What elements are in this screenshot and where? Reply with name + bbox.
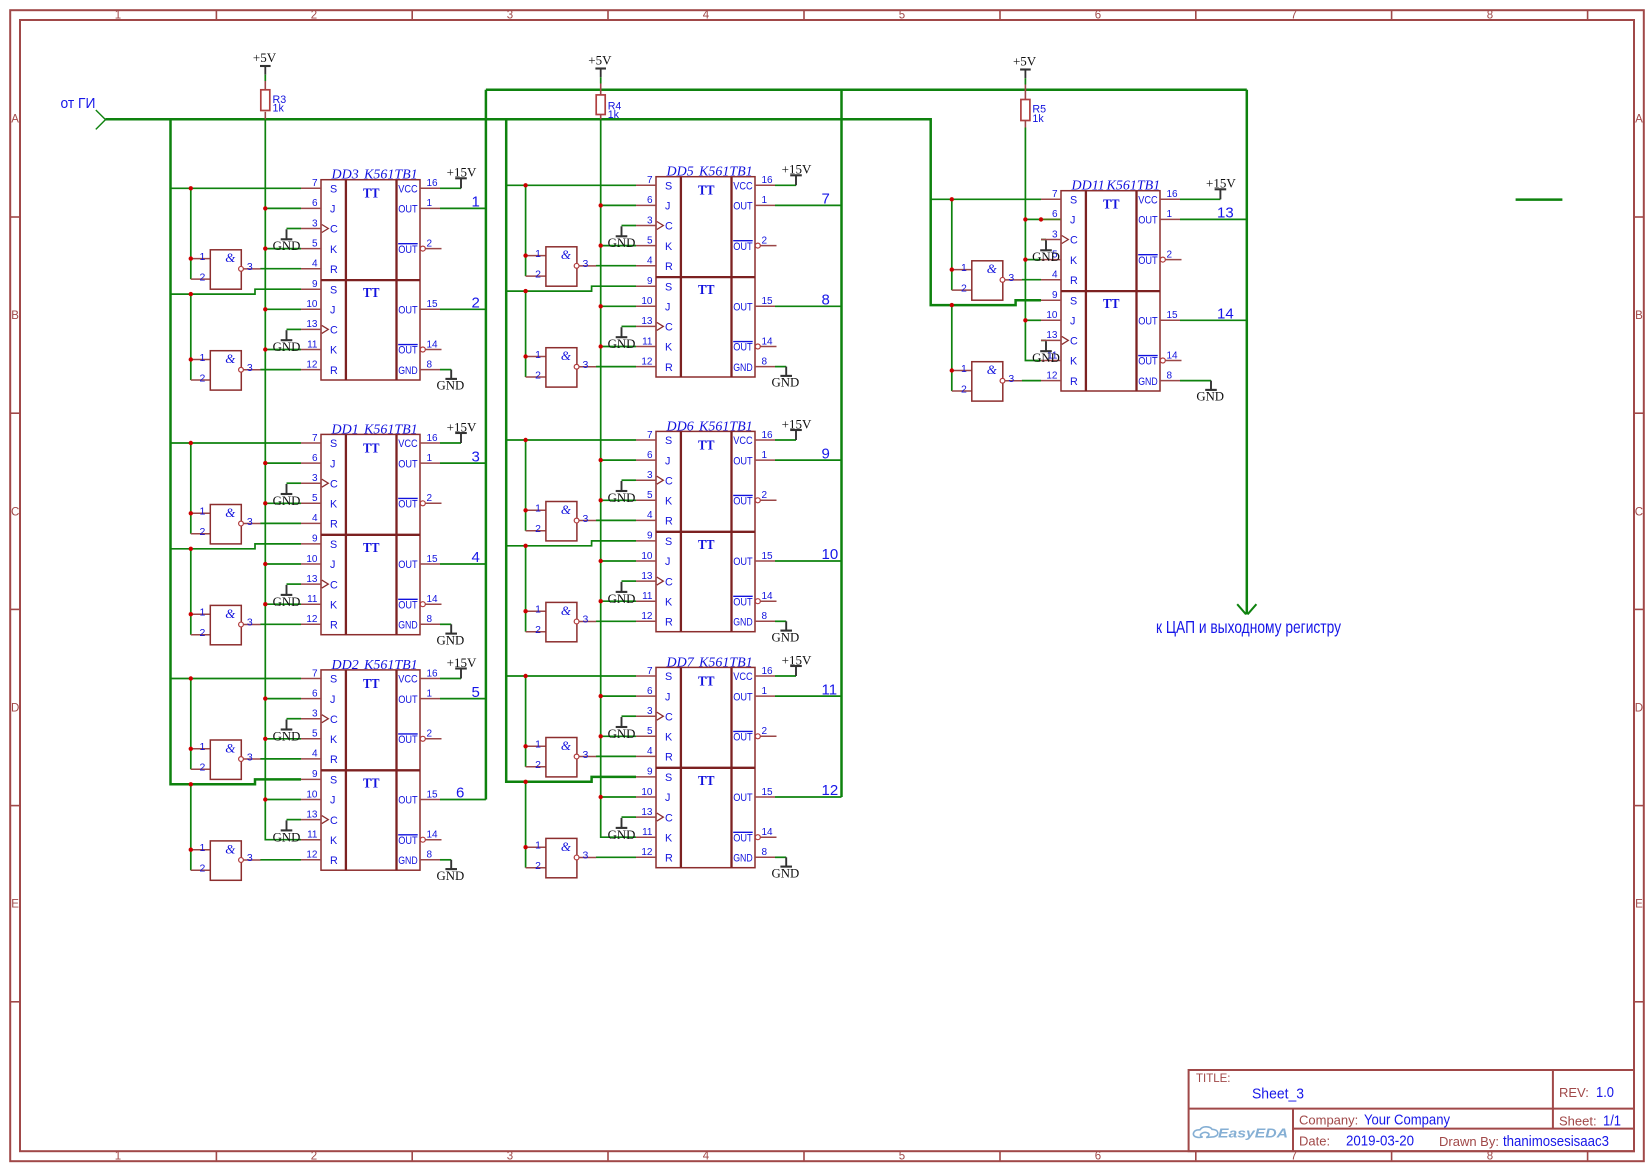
svg-text:14: 14 <box>427 594 439 605</box>
svg-text:15: 15 <box>762 551 774 562</box>
ground lead at pin8 of DD3 <box>450 370 452 379</box>
junction gate2-in1 DD5 <box>523 354 527 358</box>
wire gate2 output to R pin12 DD11 <box>1022 380 1041 382</box>
title block REV <box>1559 1084 1614 1101</box>
wire OUT pin15 net 4 DD1 <box>440 563 486 565</box>
svg-text:&: & <box>225 250 236 265</box>
svg-text:E: E <box>11 899 19 911</box>
svg-text:S: S <box>665 281 672 293</box>
svg-text:&: & <box>561 603 572 618</box>
svg-text:2019-03-20: 2019-03-20 <box>1346 1133 1414 1150</box>
svg-text:TT: TT <box>1103 197 1120 212</box>
svg-text:S: S <box>330 775 337 787</box>
junction K1 clock DD5 <box>599 243 603 247</box>
svg-text:Sheet_3: Sheet_3 <box>1252 1086 1304 1103</box>
svg-text:TT: TT <box>363 186 380 201</box>
svg-text:10: 10 <box>641 296 653 307</box>
svg-text:J: J <box>330 559 335 571</box>
svg-text:8: 8 <box>427 850 433 861</box>
wire C pin13 to ground DD6 <box>622 580 637 582</box>
wire gate-input vertical upper DD2 <box>190 679 192 770</box>
svg-text:OUT: OUT <box>398 734 418 746</box>
svg-text:S: S <box>665 671 672 683</box>
svg-text:14: 14 <box>1217 306 1234 323</box>
svg-text:GND: GND <box>273 729 301 743</box>
svg-text:1: 1 <box>762 195 768 206</box>
svg-text:9: 9 <box>312 279 318 290</box>
wire J pin6 DD3 <box>265 207 301 209</box>
junction J1 clock DD3 <box>263 206 267 210</box>
svg-text:8: 8 <box>1487 1151 1493 1163</box>
svg-text:7: 7 <box>647 430 653 441</box>
wire VCC pin16 DD7 <box>775 675 796 677</box>
svg-text:5: 5 <box>312 729 318 740</box>
ground lead at pin8 of DD6 <box>785 621 787 630</box>
svg-text:C: C <box>1070 336 1078 348</box>
svg-text:Sheet:: Sheet: <box>1559 1114 1597 1129</box>
ground at pin13 of DD6 <box>608 582 636 606</box>
svg-text:C: C <box>665 812 673 824</box>
svg-text:13: 13 <box>306 319 318 330</box>
resistor R4 1k <box>596 84 621 121</box>
svg-text:OUT: OUT <box>398 204 418 216</box>
junction K2 clock DD6 <box>599 599 603 603</box>
svg-text:R: R <box>665 752 673 764</box>
svg-text:8: 8 <box>427 359 433 370</box>
NAND gate upper of DD11 <box>952 261 1022 300</box>
svg-text:3: 3 <box>507 10 513 22</box>
svg-text:C: C <box>665 475 673 487</box>
junction K1 clock DD1 <box>263 501 267 505</box>
svg-text:4: 4 <box>647 746 653 757</box>
svg-text:J: J <box>665 302 670 314</box>
power +5V above R3 <box>253 50 277 75</box>
junction K1 clock DD2 <box>263 737 267 741</box>
svg-text:2: 2 <box>762 726 768 737</box>
svg-text:10: 10 <box>306 789 318 800</box>
wire gate-input vertical upper DD6 <box>525 440 527 531</box>
svg-text:9: 9 <box>312 769 318 780</box>
svg-text:5: 5 <box>647 490 653 501</box>
wire K pin5 DD1 <box>265 502 301 504</box>
wire gate2 output to R pin12 DD7 <box>596 856 636 858</box>
ground lead at pin8 of DD1 <box>450 624 452 633</box>
svg-text:&: & <box>225 606 236 621</box>
wire C pin3 to ground DD11 <box>1041 239 1046 241</box>
svg-text:&: & <box>561 839 572 854</box>
svg-text:J: J <box>330 204 335 216</box>
junction J2 clock DD7 <box>599 795 603 799</box>
svg-text:C: C <box>665 711 673 723</box>
svg-text:VCC: VCC <box>733 181 753 193</box>
svg-text:1: 1 <box>472 194 480 211</box>
svg-text:1: 1 <box>762 450 768 461</box>
wire K pin5 DD7 <box>601 735 636 737</box>
svg-text:R: R <box>330 620 338 632</box>
junction gate2-in1 DD1 <box>189 612 193 616</box>
svg-text:16: 16 <box>762 666 774 677</box>
svg-text:OUT: OUT <box>398 835 418 847</box>
wire OUT pin1 net 7 DD5 <box>775 204 842 206</box>
svg-text:9: 9 <box>647 767 653 778</box>
svg-text:B: B <box>1635 310 1643 322</box>
svg-text:3: 3 <box>1008 272 1014 284</box>
svg-text:R: R <box>1070 376 1078 388</box>
svg-text:EasyEDA: EasyEDA <box>1218 1126 1288 1141</box>
wire OUT pin15 net 2 DD3 <box>440 308 486 310</box>
svg-text:A: A <box>1635 114 1643 126</box>
svg-text:3: 3 <box>507 1151 513 1163</box>
svg-text:Drawn By:: Drawn By: <box>1439 1134 1499 1149</box>
junction gate1-in1 DD1 <box>189 511 193 515</box>
wire K pin11 DD5 <box>601 346 636 348</box>
svg-text:OUT: OUT <box>733 691 753 703</box>
svg-text:GND: GND <box>273 239 301 253</box>
wire gate-input vertical upper DD1 <box>190 443 192 534</box>
junction J1 clock DD5 <box>599 203 603 207</box>
svg-text:4: 4 <box>1052 270 1058 281</box>
svg-text:2: 2 <box>762 235 768 246</box>
svg-text:C: C <box>330 714 338 726</box>
junction J2 clock DD3 <box>263 307 267 311</box>
svg-text:GND: GND <box>608 491 636 505</box>
NAND gate upper of DD5 <box>526 247 597 286</box>
ground at pin13 of DD3 <box>273 330 301 354</box>
wire J pin10 DD5 <box>601 305 636 307</box>
svg-text:GND: GND <box>1138 376 1158 388</box>
svg-text:A: A <box>11 114 19 126</box>
svg-text:Date:: Date: <box>1299 1134 1330 1149</box>
wire VCC pin16 DD2 <box>440 678 461 680</box>
junction S1/DD3 <box>189 186 193 190</box>
svg-text:8: 8 <box>822 292 830 309</box>
svg-text:9: 9 <box>647 531 653 542</box>
wire S pin9 branch DD3 <box>171 289 302 294</box>
frame column numbers bottom <box>115 1151 1493 1163</box>
svg-text:14: 14 <box>762 827 774 838</box>
wire gate2 output to R pin12 DD2 <box>260 859 301 861</box>
svg-text:K: K <box>330 499 338 511</box>
svg-text:7: 7 <box>1291 1151 1297 1163</box>
svg-text:1: 1 <box>961 262 967 274</box>
svg-text:GND: GND <box>437 633 465 647</box>
svg-text:1: 1 <box>200 741 206 753</box>
wire VCC pin16 DD11 <box>1180 198 1220 200</box>
svg-text:GND: GND <box>608 727 636 741</box>
wire J pin10 DD2 <box>265 799 301 801</box>
svg-text:2: 2 <box>200 863 206 875</box>
svg-text:4: 4 <box>703 1151 710 1163</box>
svg-text:3: 3 <box>247 617 253 629</box>
svg-text:VCC: VCC <box>398 674 418 686</box>
svg-text:15: 15 <box>427 789 439 800</box>
svg-text:K: K <box>330 835 338 847</box>
svg-text:K: K <box>330 244 338 256</box>
svg-text:6: 6 <box>312 198 318 209</box>
NAND gate lower of DD5 <box>526 348 597 387</box>
svg-text:K: K <box>665 596 673 608</box>
wire gate-input vertical upper DD3 <box>190 188 192 279</box>
lead R4 to bus <box>600 115 602 120</box>
wire K pin5 DD3 <box>265 248 301 250</box>
wire S pin7 DD11 <box>931 198 1041 200</box>
svg-text:10: 10 <box>1046 310 1058 321</box>
svg-text:TT: TT <box>363 775 380 790</box>
svg-text:15: 15 <box>427 299 439 310</box>
wire C pin13 to ground DD7 <box>622 816 637 818</box>
NAND gate lower of DD2 <box>191 841 261 880</box>
svg-text:2: 2 <box>200 762 206 774</box>
svg-text:GND: GND <box>772 866 800 880</box>
svg-text:9: 9 <box>1052 290 1058 301</box>
svg-text:R: R <box>330 855 338 867</box>
NAND gate upper of DD6 <box>526 502 597 541</box>
wire S pin7 DD5 <box>506 184 636 186</box>
svg-text:K: K <box>1070 356 1078 368</box>
svg-text:5: 5 <box>647 235 653 246</box>
svg-text:OUT: OUT <box>398 559 418 571</box>
resistor R5 1k <box>1021 85 1046 125</box>
svg-text:13: 13 <box>1046 330 1058 341</box>
svg-text:S: S <box>665 181 672 193</box>
svg-text:1: 1 <box>115 10 121 22</box>
wire J pin6 DD7 <box>601 695 636 697</box>
svg-text:TT: TT <box>363 440 380 455</box>
wire gate-input vertical lower DD6 <box>525 546 527 632</box>
ground at pin13 of DD5 <box>608 327 636 351</box>
wire gate-input vertical lower DD11 <box>951 305 953 391</box>
svg-text:GND: GND <box>733 853 753 865</box>
wire gate-input vertical upper DD5 <box>525 185 527 276</box>
wire gate-input vertical lower DD1 <box>190 549 192 635</box>
svg-text:GND: GND <box>273 595 301 609</box>
IC DD11 K561TB1 dual JK flip-flop <box>1041 189 1182 391</box>
svg-text:GND: GND <box>608 828 636 842</box>
svg-text:16: 16 <box>427 433 439 444</box>
svg-text:&: & <box>225 740 236 755</box>
svg-text:6: 6 <box>312 688 318 699</box>
svg-text:K: K <box>330 599 338 611</box>
wire J pin6 overlap on stub DD11 <box>1041 218 1061 220</box>
svg-text:11: 11 <box>642 336 653 347</box>
svg-text:K561TB1: K561TB1 <box>698 419 753 434</box>
svg-text:E: E <box>1635 899 1643 911</box>
wire OUT pin15 net 8 DD5 <box>775 305 842 307</box>
svg-text:1: 1 <box>961 363 967 375</box>
junction S1/DD1 <box>189 441 193 445</box>
svg-text:15: 15 <box>762 296 774 307</box>
svg-text:8: 8 <box>762 356 768 367</box>
svg-text:OUT: OUT <box>1138 356 1158 368</box>
svg-text:K: K <box>330 734 338 746</box>
wire J pin6 DD1 <box>265 462 301 464</box>
IC DD1 K561TB1 dual JK flip-flop <box>301 433 442 635</box>
EasyEDA logo <box>1193 1126 1288 1141</box>
svg-text:DD3: DD3 <box>331 168 359 183</box>
svg-text:R: R <box>330 754 338 766</box>
svg-text:1: 1 <box>535 503 541 515</box>
svg-text:GND: GND <box>608 236 636 250</box>
svg-text:VCC: VCC <box>398 184 418 196</box>
svg-text:&: & <box>225 841 236 856</box>
NAND gate upper of DD7 <box>526 738 597 777</box>
svg-text:13: 13 <box>1217 205 1234 222</box>
svg-text:3: 3 <box>247 261 253 273</box>
svg-text:4: 4 <box>312 513 318 524</box>
wire left rail column 2 with DD7 pin9 branch <box>506 119 636 782</box>
svg-text:S: S <box>665 536 672 548</box>
svg-text:R: R <box>665 362 673 374</box>
wire gate-input vertical lower DD7 <box>525 782 527 868</box>
svg-text:&: & <box>225 351 236 366</box>
ground lead at pin8 of DD7 <box>785 857 787 866</box>
svg-text:3: 3 <box>583 614 589 626</box>
svg-text:OUT: OUT <box>733 302 753 314</box>
svg-text:14: 14 <box>1167 350 1179 361</box>
svg-text:12: 12 <box>306 850 318 861</box>
wire OUT pin1 net 1 DD3 <box>440 207 486 209</box>
svg-text:DD1: DD1 <box>331 422 359 437</box>
svg-text:TT: TT <box>363 285 380 300</box>
svg-text:S: S <box>330 284 337 296</box>
wire S pin9 branch DD5 <box>506 286 636 291</box>
wire J pin6 DD2 <box>265 698 301 700</box>
frame row letters left <box>11 114 19 911</box>
IC DD2 K561TB1 dual JK flip-flop <box>301 668 442 870</box>
ground lead at pin8 of DD2 <box>450 860 452 869</box>
ground at pin3 of DD11 <box>1032 240 1060 264</box>
svg-text:4: 4 <box>472 549 480 566</box>
svg-text:1: 1 <box>200 842 206 854</box>
power +15V at pin16 of DD3 <box>447 165 477 189</box>
svg-text:&: & <box>561 738 572 753</box>
svg-text:14: 14 <box>762 591 774 602</box>
svg-text:2: 2 <box>472 295 480 312</box>
svg-text:12: 12 <box>641 356 653 367</box>
wire OUT pin1 net 11 DD7 <box>775 695 842 697</box>
svg-text:6: 6 <box>647 686 653 697</box>
svg-text:J: J <box>1070 215 1075 227</box>
NAND gate lower of DD11 <box>952 362 1022 401</box>
svg-text:thanimosesisaac3: thanimosesisaac3 <box>1503 1133 1609 1150</box>
wire GND pin8 DD2 <box>440 859 451 861</box>
svg-text:11: 11 <box>822 681 838 698</box>
junction S2-branch DD3 <box>189 292 193 296</box>
svg-text:+15V: +15V <box>447 655 477 670</box>
svg-text:6: 6 <box>1095 1151 1101 1163</box>
svg-text:11: 11 <box>307 830 318 841</box>
svg-text:R: R <box>1070 275 1078 287</box>
svg-text:3: 3 <box>583 513 589 525</box>
junction S1/DD5 <box>523 183 527 187</box>
svg-text:DD5: DD5 <box>666 165 694 180</box>
svg-text:GND: GND <box>1032 250 1060 264</box>
svg-text:1.0: 1.0 <box>1596 1084 1614 1101</box>
title block Sheet number <box>1559 1113 1621 1130</box>
svg-text:Your Company: Your Company <box>1364 1112 1450 1129</box>
junction gate2-in1 DD11 <box>950 368 954 372</box>
svg-text:DD2: DD2 <box>331 658 359 673</box>
svg-text:13: 13 <box>306 574 318 585</box>
svg-text:TT: TT <box>698 183 715 198</box>
svg-text:2: 2 <box>200 526 206 538</box>
NAND gate lower of DD7 <box>526 838 597 877</box>
wire C pin3 to ground DD2 <box>287 718 302 720</box>
wire gate-input vertical lower DD3 <box>190 294 192 380</box>
svg-text:7: 7 <box>1052 189 1058 200</box>
svg-text:&: & <box>987 362 998 377</box>
svg-text:GND: GND <box>398 620 418 632</box>
svg-text:GND: GND <box>608 337 636 351</box>
wire S pin9 branch DD6 <box>506 541 636 546</box>
wire VCC pin16 DD1 <box>440 442 461 444</box>
wire GND pin8 DD5 <box>775 366 786 368</box>
svg-text:3: 3 <box>1052 229 1058 240</box>
svg-text:12: 12 <box>822 782 839 799</box>
svg-text:2: 2 <box>427 238 433 249</box>
svg-text:OUT: OUT <box>733 342 753 354</box>
svg-text:10: 10 <box>822 546 839 563</box>
wire clock line column 1 from R3 to DD2 pin11 <box>265 119 301 839</box>
power +5V above R5 <box>1013 54 1037 79</box>
ground at pin3 of DD3 <box>273 229 301 253</box>
svg-text:2: 2 <box>1167 249 1173 260</box>
svg-text:1: 1 <box>535 248 541 260</box>
svg-text:7: 7 <box>1291 10 1297 22</box>
svg-text:OUT: OUT <box>398 244 418 256</box>
wire K pin5 DD6 <box>601 499 636 501</box>
power +5V above R4 <box>588 53 612 78</box>
junction K1 clock DD7 <box>599 734 603 738</box>
svg-text:3: 3 <box>247 751 253 763</box>
svg-text:8: 8 <box>427 614 433 625</box>
junction gate2-in1 DD6 <box>523 609 527 613</box>
junction S2-branch DD1 <box>189 547 193 551</box>
junction J2 clock DD1 <box>263 562 267 566</box>
wire C pin3 to ground DD5 <box>622 225 637 227</box>
ground at pin3 of DD1 <box>273 484 301 508</box>
svg-text:14: 14 <box>427 830 439 841</box>
svg-text:TT: TT <box>363 676 380 691</box>
svg-text:1k: 1k <box>273 103 285 115</box>
junction gate2-in1 DD2 <box>189 848 193 852</box>
svg-text:OUT: OUT <box>733 556 753 568</box>
svg-text:8: 8 <box>1167 370 1173 381</box>
svg-text:1k: 1k <box>608 109 620 121</box>
junction J1 clock DD2 <box>263 696 267 700</box>
svg-text:9: 9 <box>822 445 830 462</box>
svg-text:14: 14 <box>427 339 439 350</box>
svg-text:2: 2 <box>961 282 967 294</box>
wire clock line column 3 from R5 to DD11 pin11 <box>1025 128 1041 361</box>
wire S pin7 DD2 <box>171 678 302 680</box>
svg-text:OUT: OUT <box>733 596 753 608</box>
svg-text:K561TB1: K561TB1 <box>698 165 753 180</box>
svg-text:2: 2 <box>535 369 541 381</box>
svg-text:GND: GND <box>273 830 301 844</box>
wire main clock bus from port to DD11 branch with jog to DD11 pin9 <box>106 119 1042 305</box>
svg-text:5: 5 <box>312 493 318 504</box>
svg-text:OUT: OUT <box>733 455 753 467</box>
svg-text:&: & <box>561 502 572 517</box>
svg-text:OUT: OUT <box>1138 255 1158 267</box>
junction J2 clock DD11 <box>1023 318 1027 322</box>
svg-text:OUT: OUT <box>398 694 418 706</box>
svg-text:GND: GND <box>273 494 301 508</box>
wire J pin6 DD11 <box>1025 218 1041 220</box>
ground at pin13 of DD1 <box>273 585 301 609</box>
wire top feedback line <box>486 89 1247 92</box>
